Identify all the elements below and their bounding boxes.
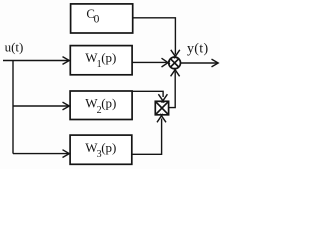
svg-text:(p): (p) [101,140,116,155]
wire: multiplier output up to summing junction bottom [169,68,180,108]
svg-text:(p): (p) [101,96,116,111]
block W1 [70,46,132,75]
wire: branch to W3 [13,150,69,158]
wire: summing junction output y(t) [181,59,218,67]
wire: branch to W2 [13,102,69,110]
block W2 [70,91,132,120]
wire: W1 output to summing junction [132,58,170,67]
block W3 [70,135,132,164]
wire: W3 output to multiplier bottom [132,114,166,155]
multiplier junction (square with X) [155,101,168,115]
svg-text:0: 0 [94,14,100,26]
wire: C0 output over to summing junction top [133,18,180,59]
block C0 [71,4,133,33]
svg-text:y(t): y(t) [187,41,208,56]
wire: u(t) input line to W1 [3,57,69,65]
svg-text:u(t): u(t) [5,40,24,55]
wire: input trunk vertical [12,61,14,154]
wire: W2 output to multiplier top [132,91,167,102]
summing junction (circle with X) [169,57,181,69]
svg-text:(p): (p) [101,50,116,65]
